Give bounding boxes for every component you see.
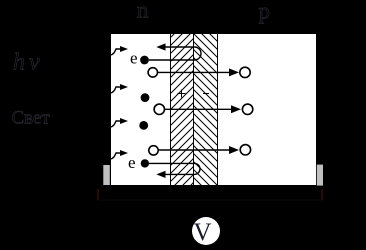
bottom wire	[98, 199, 322, 201]
hole h2	[154, 104, 164, 114]
svg-text:e: e	[130, 49, 138, 68]
hole h1	[148, 68, 157, 77]
depletion right border	[217, 34, 219, 185]
right wire	[321, 189, 323, 200]
light ray arrow 1	[111, 49, 122, 55]
hole h3	[149, 146, 158, 155]
hole h3 final	[240, 145, 250, 155]
electron e2 U-turn path	[149, 163, 200, 174]
left wire	[97, 189, 99, 200]
left electrode	[103, 165, 110, 185]
svg-text:V: V	[194, 219, 212, 246]
junction line	[193, 34, 195, 185]
depletion region hatch p side	[194, 34, 218, 185]
hole h2 arrow	[165, 108, 232, 110]
plus charge sign	[178, 90, 186, 98]
svg-text:Свет: Свет	[12, 108, 51, 129]
electron e1	[140, 56, 149, 65]
semiconductor body	[111, 34, 316, 185]
right electrode	[317, 165, 323, 186]
svg-text:n: n	[137, 0, 149, 23]
electron e2	[141, 159, 149, 167]
light ray arrow 2	[111, 87, 122, 93]
hole h3 arrow	[158, 149, 229, 151]
svg-text:p: p	[259, 0, 271, 24]
svg-text:hν: hν	[13, 50, 44, 76]
hole h1 arrow	[158, 71, 230, 73]
hole h1 final	[240, 67, 250, 77]
depletion left border	[170, 34, 172, 185]
depletion region hatch n side	[171, 34, 195, 185]
light ray arrow 4	[111, 153, 122, 159]
free electron 1	[141, 93, 150, 102]
voltmeter body	[192, 217, 220, 245]
electron e1 U-turn path	[149, 47, 201, 60]
light ray arrow 3	[111, 121, 122, 127]
free electron 2	[139, 121, 148, 130]
hole h2 final	[242, 104, 252, 114]
minus charge sign	[203, 93, 209, 95]
svg-text:e: e	[128, 153, 136, 172]
